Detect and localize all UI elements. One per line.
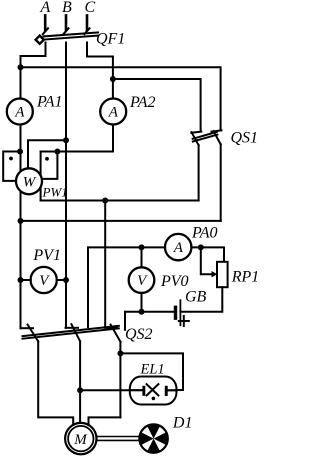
QS1 tick left pole bbox=[191, 132, 201, 133]
wire rail A below wattmeter bbox=[20, 192, 22, 329]
QS2 blade pole 3 bbox=[111, 325, 121, 342]
wattmeter PW1 current coil bracket bbox=[3, 152, 20, 181]
battery GB bbox=[176, 300, 181, 325]
wire phase C top stub bbox=[86, 15, 89, 30]
wire PV1 right lead bbox=[57, 279, 66, 281]
svg-text:QF1: QF1 bbox=[96, 31, 125, 48]
node rail A / wattmeter bbox=[17, 149, 23, 155]
wire pole C lower stub and jog right bbox=[87, 43, 113, 57]
wire QS2 pole3 down bbox=[119, 342, 121, 418]
QS2 blade pole 2 bbox=[71, 324, 80, 341]
svg-text:PV1: PV1 bbox=[32, 247, 61, 264]
GB long plate bbox=[179, 300, 181, 325]
svg-text:PA2: PA2 bbox=[129, 94, 155, 111]
wire wattmeter top line to phase C bbox=[41, 151, 113, 153]
node PV0 top bbox=[139, 244, 145, 250]
node rail A / PV1 bbox=[18, 277, 24, 283]
QF1 blade pole C bbox=[84, 28, 89, 34]
wire lamp branch right bbox=[120, 353, 183, 390]
svg-text:A: A bbox=[40, 0, 51, 16]
circuit breaker QF1 bbox=[36, 28, 98, 44]
lamp tail dot bbox=[152, 397, 156, 401]
node rail B / PV1 bbox=[63, 277, 69, 283]
svg-text:GB: GB bbox=[185, 289, 207, 306]
wire QS2 pole1 down and jog to motor bbox=[38, 341, 73, 425]
motor shaft bbox=[97, 436, 140, 438]
wire PV1 left lead bbox=[21, 279, 31, 281]
wire phase C down to tap bbox=[112, 57, 114, 99]
QS2 tick pole 1 bbox=[21, 327, 34, 329]
wire QS1 left return line bbox=[41, 200, 199, 202]
svg-text:M: M bbox=[73, 432, 88, 448]
lamp EL1 housing bbox=[130, 377, 177, 405]
rheostat RP1 bbox=[217, 262, 228, 287]
svg-text:RP1: RP1 bbox=[231, 269, 257, 286]
wire phase B top stub bbox=[65, 15, 68, 29]
node pole2 / lamp left bbox=[77, 387, 83, 393]
fan D1 bbox=[139, 424, 167, 452]
wire pole A lower stub and jog left bbox=[21, 43, 46, 57]
wire corner drop to QS2 bbox=[124, 312, 126, 330]
wiper arrowhead bbox=[212, 271, 218, 277]
wire QS1 left pole down bbox=[198, 145, 200, 200]
svg-text:PA0: PA0 bbox=[191, 224, 217, 241]
wire lamp left lead bbox=[80, 389, 130, 391]
node wiper tap bbox=[198, 244, 204, 250]
svg-text:PV0: PV0 bbox=[160, 273, 189, 290]
wire rail A upper (to PA1) bbox=[20, 56, 22, 99]
wire PV0 top lead bbox=[141, 247, 143, 267]
wire pole3 jog to motor bbox=[89, 417, 121, 425]
svg-text:C: C bbox=[85, 0, 96, 16]
ammeter PA0 bbox=[165, 234, 191, 260]
svg-text:V: V bbox=[137, 273, 148, 289]
QF1 linkage bar bbox=[44, 32, 99, 36]
knife switch QS2 bbox=[21, 324, 121, 341]
polarity dot right coil bbox=[45, 157, 49, 161]
polarity dot left coil bbox=[9, 157, 13, 161]
wire QS1 right return line bbox=[21, 220, 221, 222]
voltmeter PV0 bbox=[129, 267, 155, 293]
wire rail A PA1 to wattmeter bbox=[20, 125, 22, 172]
svg-text:A: A bbox=[14, 105, 25, 121]
knife switch QS1 bbox=[191, 130, 221, 145]
ammeter PA2 bbox=[100, 99, 126, 125]
QF1 blade pole A bbox=[43, 28, 48, 34]
wire bracket left edge down bbox=[40, 152, 42, 201]
lamp left terminal stub bbox=[130, 389, 143, 391]
wire drop x105 to QS2 pole 3 bbox=[104, 201, 106, 327]
svg-text:A: A bbox=[173, 240, 184, 256]
node rail B / voltage tap bbox=[63, 137, 69, 143]
svg-text:PA1: PA1 bbox=[36, 94, 62, 111]
QS2 tick pole 3 bbox=[105, 327, 117, 329]
wire RP1 bottom to battery bbox=[180, 287, 222, 312]
svg-text:EL1: EL1 bbox=[140, 362, 165, 378]
QF1 blade pole B bbox=[63, 28, 68, 34]
voltmeter PV1 bbox=[31, 267, 57, 293]
lamp right terminal bar bbox=[165, 386, 168, 396]
wattmeter PW1 bbox=[16, 168, 42, 194]
motor M bbox=[65, 423, 96, 454]
wire phase A top stub bbox=[44, 15, 47, 30]
QS2 linkage bar bbox=[23, 326, 119, 336]
svg-text:PW1: PW1 bbox=[42, 185, 68, 200]
wire PV0 bottom lead bbox=[141, 293, 143, 312]
svg-text:B: B bbox=[62, 0, 72, 16]
wire measuring line to PA0 bbox=[88, 246, 165, 248]
lamp right terminal stub bbox=[168, 389, 177, 391]
svg-text:A: A bbox=[108, 105, 119, 121]
svg-text:W: W bbox=[23, 174, 37, 190]
svg-text:QS2: QS2 bbox=[125, 326, 153, 343]
wattmeter voltage coil bracket bbox=[42, 152, 58, 179]
node phase C / line to QS1 left pole bbox=[110, 76, 116, 82]
QS1 blade right pole bbox=[214, 131, 221, 144]
lamp left terminal bar bbox=[142, 386, 145, 396]
plus sign bbox=[179, 316, 189, 326]
QS1 tick right pole bbox=[212, 130, 222, 131]
node rail A / QS1 right return bbox=[18, 218, 24, 224]
node rail A / line to QS1 right pole bbox=[18, 64, 24, 70]
node PV0 bottom bbox=[139, 309, 145, 315]
wire PA0 to RP1 bbox=[191, 247, 224, 261]
svg-text:D1: D1 bbox=[172, 415, 193, 432]
wire battery left to corner drop bbox=[125, 311, 176, 313]
wire rail B bbox=[65, 43, 67, 328]
wire voltage tap B to wattmeter bbox=[28, 140, 66, 169]
wire QS2 pole2 down to motor bbox=[79, 341, 81, 423]
node return line / drop bbox=[102, 198, 108, 204]
wire QS1 right pole down bbox=[220, 144, 222, 221]
QS2 tick pole 2 bbox=[66, 327, 79, 329]
lamp cross bbox=[147, 384, 159, 395]
ammeter PA1 bbox=[7, 99, 33, 125]
wire line C to QS1 left pole bbox=[113, 79, 201, 131]
wire wiper drop bbox=[201, 247, 213, 274]
node pole3 / lamp branch bbox=[117, 350, 123, 356]
node wattmeter line bbox=[54, 149, 60, 155]
wire measuring feed up from QS2 bbox=[87, 247, 89, 327]
wire phase C PA2 down to corner bbox=[112, 125, 114, 152]
wire line A to QS1 right pole bbox=[21, 67, 221, 130]
svg-text:QS1: QS1 bbox=[231, 130, 258, 147]
QS2 blade pole 1 bbox=[28, 325, 39, 342]
QS1 blade left pole bbox=[192, 132, 199, 145]
QS1 linkage bar bbox=[193, 132, 217, 139]
QF1 handle square bbox=[36, 36, 44, 44]
GB short plate bbox=[174, 307, 177, 318]
